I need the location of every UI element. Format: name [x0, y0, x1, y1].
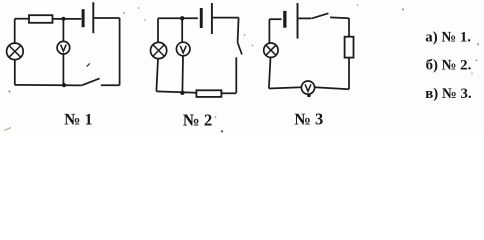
wire resistor to bottom-right corner circuit 2 — [221, 92, 236, 94]
node junction dot top circuit 2 — [180, 16, 184, 20]
svg-text:№ 1: № 1 — [64, 110, 92, 128]
lamp HL1 (circle with X) — [7, 43, 24, 60]
battery GB1 positive plate (long thin) — [92, 2, 94, 33]
svg-text:№ 2: № 2 — [183, 110, 212, 129]
voltmeter PV3 (circle with V, in bottom wire) — [301, 81, 314, 94]
resistor (top, circuit 1) — [29, 15, 53, 23]
switch S2 blade (open, right side) — [237, 42, 242, 55]
wire left vertical circuit 3 — [268, 19, 270, 43]
svg-text:б) № 2.: б) № 2. — [426, 58, 472, 74]
wire bottom-left circuit 3 — [269, 87, 302, 88]
switch S3 blade (open, top) — [312, 13, 329, 18]
lamp HL3 (circle with X) — [264, 43, 278, 57]
wire top-left circuit 3 — [269, 18, 281, 20]
wire bottom-left circuit 2 — [156, 91, 196, 92]
wire right vertical lower circuit 2 — [235, 57, 237, 93]
wire switch to top-right corner circuit 3 — [330, 16, 349, 19]
wire left vertical circuit 1 — [14, 19, 16, 43]
svg-text:а) № 1.: а) № 1. — [425, 30, 471, 46]
svg-text:№ 3: № 3 — [294, 110, 323, 129]
wire resistor to battery circuit 1 — [53, 18, 82, 20]
scan specks — [4, 4, 479, 132]
switch S1 stray tick mark — [87, 63, 90, 66]
resistor (bottom, circuit 2) — [196, 90, 221, 97]
wire lamp to bottom-left corner circuit 1 — [14, 60, 16, 85]
node blob below voltmeter circuit 3 — [307, 94, 311, 97]
wire right vertical upper circuit 2 — [238, 18, 239, 42]
wire battery to switch circuit 3 — [298, 17, 311, 19]
wire top circuit 2 — [158, 17, 198, 19]
svg-text:в) № 3.: в) № 3. — [425, 86, 472, 102]
node junction dot circuit 1 — [62, 83, 66, 87]
node junction dot top circuit 1 — [61, 17, 65, 21]
wire lamp to bottom-left corner circuit 3 — [269, 57, 271, 88]
voltmeter PV2 (circle with V) — [176, 42, 190, 56]
wire top-left horizontal segment circuit 1 — [15, 18, 29, 20]
wire voltmeter drop circuit 2 — [181, 18, 183, 42]
wire switch to bottom-right corner circuit 1 — [101, 84, 120, 86]
voltmeter PV1 (circle with V) — [57, 41, 70, 54]
wire voltmeter to bottom wire circuit 2 — [181, 56, 184, 93]
wire right vertical lower circuit 3 — [348, 58, 350, 90]
battery GB3 negative plate (short thick) — [283, 11, 286, 28]
wire bottom-right circuit 3 — [315, 87, 349, 89]
node junction dot bottom circuit 2 — [180, 91, 184, 95]
wire battery to top-right corner circuit 1 — [94, 17, 119, 19]
wire battery to top-right corner circuit 2 — [213, 17, 239, 19]
wire right vertical circuit 1 — [119, 18, 121, 85]
wire lamp to bottom-left corner circuit 2 — [156, 59, 158, 92]
wire voltmeter drop from top circuit 1 — [62, 19, 64, 42]
battery GB3 positive plate (long thin) — [297, 3, 299, 39]
wire left vertical circuit 2 — [157, 18, 159, 42]
battery GB2 negative plate (short thick) — [200, 8, 203, 28]
wire bottom circuit 1 — [15, 84, 81, 87]
battery GB2 positive plate (long thin) — [211, 3, 213, 34]
wire right vertical upper circuit 3 — [348, 18, 350, 37]
battery GB1 negative plate (short thick) — [82, 9, 85, 27]
wire voltmeter to bottom wire circuit 1 — [62, 54, 64, 85]
resistor (right side, circuit 3) — [345, 37, 354, 58]
switch S1 blade (open, bottom) — [81, 78, 99, 85]
lamp HL2 (circle with X) — [151, 42, 167, 58]
